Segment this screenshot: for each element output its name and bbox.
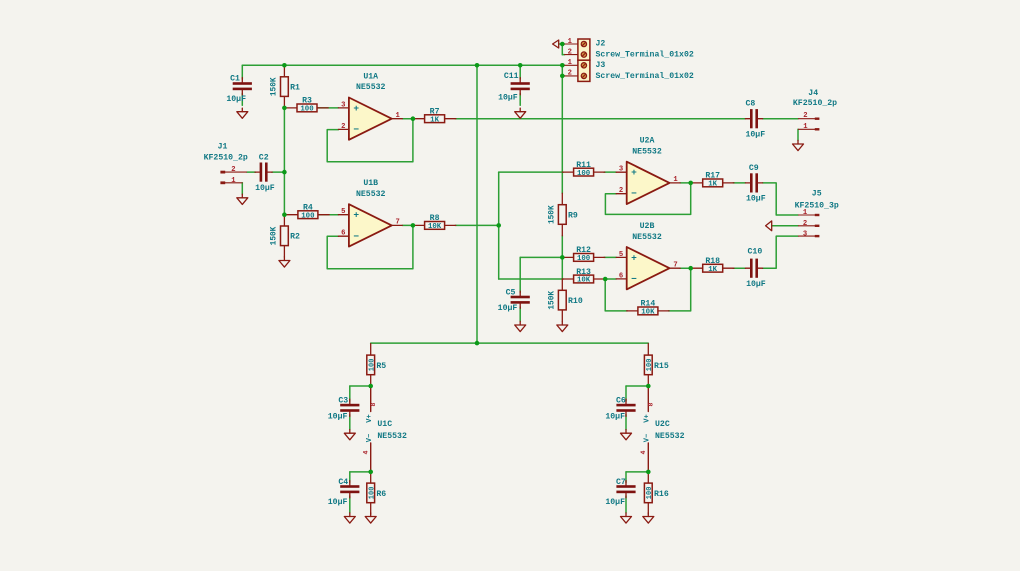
svg-text:NE5532: NE5532 xyxy=(356,190,386,199)
svg-text:1: 1 xyxy=(396,112,401,120)
svg-text:1K: 1K xyxy=(708,266,717,274)
svg-text:NE5532: NE5532 xyxy=(377,432,407,441)
svg-text:1: 1 xyxy=(568,38,573,46)
svg-text:8: 8 xyxy=(370,402,377,406)
svg-text:−: − xyxy=(353,124,359,135)
svg-text:−: − xyxy=(631,274,637,285)
svg-text:1: 1 xyxy=(231,177,236,185)
svg-text:150K: 150K xyxy=(548,291,556,310)
svg-text:4: 4 xyxy=(640,450,647,454)
svg-text:−: − xyxy=(631,188,637,199)
svg-text:R18: R18 xyxy=(705,257,720,266)
svg-text:100: 100 xyxy=(646,487,654,500)
svg-text:R10: R10 xyxy=(568,297,583,306)
svg-text:100: 100 xyxy=(300,106,314,114)
svg-text:1: 1 xyxy=(568,59,573,67)
svg-text:2: 2 xyxy=(803,220,807,228)
svg-text:150K: 150K xyxy=(271,226,279,245)
svg-text:R11: R11 xyxy=(576,161,591,170)
svg-text:V−: V− xyxy=(366,434,374,442)
svg-text:2: 2 xyxy=(568,48,572,56)
svg-text:2: 2 xyxy=(568,70,572,78)
svg-text:J3: J3 xyxy=(596,61,606,70)
svg-text:C8: C8 xyxy=(745,100,755,109)
svg-text:V+: V+ xyxy=(366,414,374,422)
svg-text:10µF: 10µF xyxy=(498,94,518,103)
svg-text:4: 4 xyxy=(362,450,369,454)
svg-text:U2C: U2C xyxy=(655,420,670,429)
svg-text:100: 100 xyxy=(368,487,376,500)
svg-text:3: 3 xyxy=(803,230,807,238)
svg-text:10µF: 10µF xyxy=(328,498,348,507)
svg-text:C1: C1 xyxy=(230,75,240,84)
svg-text:U1A: U1A xyxy=(363,73,378,82)
svg-text:V+: V+ xyxy=(644,414,652,422)
svg-text:C4: C4 xyxy=(338,478,348,487)
svg-text:R6: R6 xyxy=(376,490,386,499)
svg-text:V−: V− xyxy=(644,434,652,442)
svg-text:150K: 150K xyxy=(271,77,279,96)
svg-text:+: + xyxy=(353,210,359,221)
svg-text:R3: R3 xyxy=(302,97,312,106)
svg-text:J1: J1 xyxy=(218,142,228,151)
svg-text:+: + xyxy=(631,252,637,263)
svg-text:10µF: 10µF xyxy=(746,280,766,289)
svg-text:10K: 10K xyxy=(577,277,591,285)
svg-text:C5: C5 xyxy=(506,288,516,297)
svg-text:C9: C9 xyxy=(749,164,759,173)
svg-text:C3: C3 xyxy=(338,396,348,405)
svg-text:10µF: 10µF xyxy=(746,195,766,204)
svg-text:R4: R4 xyxy=(303,204,313,213)
svg-text:Screw_Terminal_01x02: Screw_Terminal_01x02 xyxy=(596,71,694,81)
svg-text:C6: C6 xyxy=(616,396,626,405)
svg-text:J5: J5 xyxy=(812,189,822,198)
svg-text:R13: R13 xyxy=(576,268,591,277)
svg-text:R5: R5 xyxy=(376,362,386,371)
svg-text:150K: 150K xyxy=(548,205,556,224)
svg-text:NE5532: NE5532 xyxy=(632,233,662,242)
svg-text:10µF: 10µF xyxy=(498,304,518,313)
svg-text:2: 2 xyxy=(341,123,345,131)
svg-text:R16: R16 xyxy=(654,490,669,499)
svg-text:10µF: 10µF xyxy=(605,412,625,421)
svg-text:100: 100 xyxy=(577,255,591,263)
svg-text:1K: 1K xyxy=(708,181,717,189)
svg-text:1: 1 xyxy=(803,123,808,131)
svg-text:KF2510_2p: KF2510_2p xyxy=(204,154,248,163)
svg-text:U2A: U2A xyxy=(640,137,655,146)
svg-text:5: 5 xyxy=(619,251,623,259)
svg-text:10µF: 10µF xyxy=(255,184,275,193)
svg-text:U2B: U2B xyxy=(640,222,655,231)
svg-text:R1: R1 xyxy=(290,84,300,93)
svg-text:C2: C2 xyxy=(259,154,269,163)
svg-text:7: 7 xyxy=(673,261,677,269)
svg-text:Screw_Terminal_01x02: Screw_Terminal_01x02 xyxy=(596,49,694,59)
svg-text:+: + xyxy=(631,167,637,178)
svg-text:NE5532: NE5532 xyxy=(356,83,386,92)
svg-text:J4: J4 xyxy=(808,89,818,98)
svg-text:R9: R9 xyxy=(568,211,578,220)
svg-text:100: 100 xyxy=(301,212,315,220)
svg-text:10K: 10K xyxy=(641,309,655,317)
svg-text:C7: C7 xyxy=(616,478,626,487)
svg-text:6: 6 xyxy=(619,272,623,280)
svg-text:R2: R2 xyxy=(290,233,300,242)
svg-text:10µF: 10µF xyxy=(605,498,625,507)
svg-text:R7: R7 xyxy=(430,108,440,117)
svg-text:1: 1 xyxy=(803,209,808,217)
svg-text:C10: C10 xyxy=(748,248,763,257)
svg-text:R15: R15 xyxy=(654,362,669,371)
svg-text:10µF: 10µF xyxy=(745,131,765,140)
svg-text:2: 2 xyxy=(803,112,807,120)
svg-text:100: 100 xyxy=(577,170,591,178)
svg-text:U1B: U1B xyxy=(363,179,378,188)
svg-text:6: 6 xyxy=(341,230,345,238)
svg-text:1: 1 xyxy=(673,176,678,184)
svg-text:2: 2 xyxy=(619,187,623,195)
svg-text:NE5532: NE5532 xyxy=(632,148,662,157)
svg-text:KF2510_2p: KF2510_2p xyxy=(793,99,837,108)
svg-text:10K: 10K xyxy=(428,223,442,231)
svg-text:3: 3 xyxy=(619,166,623,174)
svg-text:J2: J2 xyxy=(596,39,606,48)
svg-text:100: 100 xyxy=(646,359,654,372)
svg-text:10µF: 10µF xyxy=(226,95,246,104)
svg-text:U1C: U1C xyxy=(377,420,392,429)
svg-text:7: 7 xyxy=(396,219,400,227)
svg-text:NE5532: NE5532 xyxy=(655,432,685,441)
svg-text:100: 100 xyxy=(368,359,376,372)
svg-text:10µF: 10µF xyxy=(328,412,348,421)
svg-text:C11: C11 xyxy=(504,72,519,81)
svg-text:1K: 1K xyxy=(430,116,439,124)
svg-text:3: 3 xyxy=(341,101,345,109)
svg-text:KF2510_3p: KF2510_3p xyxy=(795,202,839,211)
svg-text:2: 2 xyxy=(231,166,235,174)
svg-text:−: − xyxy=(353,231,359,242)
svg-text:R12: R12 xyxy=(576,246,591,255)
svg-text:R17: R17 xyxy=(705,172,720,181)
svg-text:5: 5 xyxy=(341,208,345,216)
svg-text:R8: R8 xyxy=(430,214,440,223)
svg-text:8: 8 xyxy=(648,402,655,406)
svg-text:+: + xyxy=(353,103,359,114)
svg-text:R14: R14 xyxy=(641,300,656,309)
